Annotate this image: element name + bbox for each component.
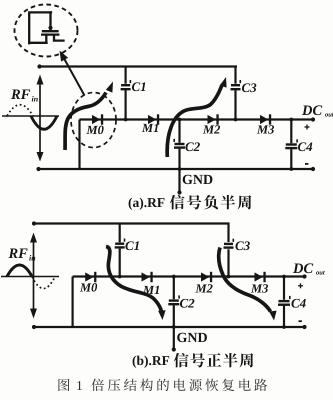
circuit (a) RF amplitude down arrow [37, 116, 44, 162]
label M2 (b) [195, 284, 212, 292]
node C2/main (b) [172, 275, 176, 279]
node C3/main (b) [227, 275, 231, 279]
caption (b) latin part [133, 356, 170, 368]
transistor M3 diode symbol (a) [260, 114, 271, 124]
figure caption: Fig.1 voltage-doubler power recovery circuit [58, 379, 267, 391]
GND terminal node (a) [177, 190, 181, 194]
circuit (a) main line wire [80, 118, 314, 120]
label C1 (b) [125, 241, 138, 250]
circuit (b) RF source terminal node top [32, 221, 36, 225]
capacitor C4 (b) [278, 296, 291, 306]
circuit (a) bottom rail wire [38, 168, 314, 170]
capacitor C2 (b) [168, 295, 180, 305]
DC_out terminal node (a) [311, 117, 315, 121]
label C4 (a) [298, 142, 312, 151]
circuit (a) RF source terminal node top [37, 64, 41, 68]
label M1 (a) [142, 124, 158, 132]
C4 plus polarity mark (b) [298, 283, 303, 288]
label M0 (b) [80, 283, 97, 291]
thick current-flow arrow through M2 (a) [167, 77, 226, 157]
circuit (b) RF_in label [8, 249, 35, 261]
circuit (a) sine dashed positive half [7, 105, 33, 116]
circuit (a) sine solid negative half [31, 116, 57, 129]
dashed highlight ellipse around M0 (a) [71, 93, 116, 148]
label C2 (b) [180, 299, 194, 308]
label M2 (a) [203, 125, 220, 133]
circuit (a) RF source terminal node bottom [36, 167, 40, 171]
node C1/main (b) [118, 275, 122, 279]
DC_out label (b) [293, 263, 325, 274]
capacitor C4 branch wire (b) [283, 277, 285, 328]
circuit (a) left stub wire from main line to bottom rail [78, 120, 80, 170]
caption (a) latin part [129, 198, 165, 210]
transistor M1 diode symbol (b) [142, 272, 153, 282]
circuit (b) sine dashed negative half [32, 277, 55, 289]
circuit (a) RF amplitude up arrow [37, 75, 44, 117]
caption (b) chinese: RF signal positive half cycle [174, 353, 253, 368]
capacitor C4 (a) [285, 139, 298, 149]
node C4/main (b) [282, 275, 286, 279]
label C3 (a) [242, 83, 256, 92]
transistor M2 diode symbol (a) [208, 114, 219, 124]
label M1 (b) [143, 286, 159, 294]
circuit (b) bottom rail wire [34, 326, 306, 328]
capacitor C1 (b) [115, 239, 126, 249]
circuit (b) RF amplitude up arrow [30, 233, 37, 277]
circuit (b) left stub wire [71, 277, 73, 328]
node C3/main (a) [234, 118, 238, 122]
node C4/main (a) [289, 118, 293, 122]
label M3 (a) [257, 125, 274, 133]
circuit (a) RF_in label [11, 90, 38, 102]
GND terminal node (b) [172, 347, 176, 351]
circuit (b) RF source terminal node bottom [32, 325, 36, 329]
circuit (b) sine solid positive half [7, 265, 32, 277]
thick current-flow arrow through M3 (b) [219, 248, 277, 321]
GND label (b) [177, 333, 207, 342]
node C2/bottom rail (a) [178, 167, 182, 171]
capacitor C2 (a) [173, 139, 185, 149]
label C3 (b) [235, 241, 249, 250]
DC_out terminal node (b) [302, 274, 306, 278]
capacitor C3 branch wire (b): top rail corner down to main line [227, 223, 229, 277]
node C2/bottom rail (b) [172, 325, 176, 329]
node C2/main (a) [178, 118, 182, 122]
bottom-right terminal node (a) [311, 167, 315, 171]
C4 minus polarity mark (a) [305, 163, 308, 165]
label M0 (a) [86, 126, 103, 134]
bottom-right terminal node (b) [302, 325, 306, 329]
capacitor C1 branch wire (b) [119, 224, 121, 277]
capacitor C2 branch wire (b) with GND stub [173, 277, 175, 349]
C4 plus polarity mark (a) [305, 125, 310, 130]
capacitor C1 (a) [121, 80, 132, 90]
label C4 (b) [291, 299, 305, 308]
label C2 (a) [185, 142, 199, 151]
node C4/bottom rail (b) [282, 325, 286, 329]
label C1 (a) [132, 82, 145, 91]
capacitor C2 branch wire (a) with GND stub [178, 120, 180, 192]
thick current-flow arrow through M0 (a) [65, 82, 113, 151]
caption (a) chinese: RF signal negative half cycle [170, 195, 251, 210]
transistor M2 diode symbol (b) [201, 272, 212, 282]
C4 minus polarity mark (b) [299, 320, 302, 322]
circuit (b) RF amplitude down arrow [30, 277, 37, 319]
DC_out label (a) [302, 105, 333, 116]
capacitor C3 branch wire (a): top rail corner down to main line [234, 66, 236, 120]
GND label (a) [183, 175, 213, 184]
transistor M1 diode symbol (a) [148, 114, 159, 124]
thick current-flow arrow through M1 (b) [106, 247, 166, 321]
circuit (a) top rail wire [39, 65, 237, 67]
capacitor C1 branch wire (a) [124, 67, 126, 120]
capacitor C4 branch wire (a) [290, 120, 292, 170]
node C1/main (a) [124, 118, 128, 122]
callout pointer arrow from M0 up to detail bubble [60, 51, 85, 96]
capacitor C3 (a) [231, 80, 242, 90]
label M3 (b) [251, 284, 268, 292]
circuit (b) top rail wire [34, 222, 230, 224]
capacitor C3 (b) [224, 239, 235, 249]
circuit (b) RF sine waveform axis [1, 276, 59, 278]
node C4/bottom rail (a) [289, 167, 293, 171]
diode-connected MOSFET M0 detail symbol inside callout [29, 12, 63, 43]
transistor M3 diode symbol (b) [255, 272, 266, 282]
transistor M0 diode symbol (b) [85, 272, 96, 282]
circuit (a) RF sine waveform axis [2, 115, 59, 117]
circuit (b) main line wire [73, 275, 305, 277]
transistor M0 diode symbol (a) [92, 114, 103, 124]
callout dashed circle (zoom detail bubble) [15, 5, 78, 57]
